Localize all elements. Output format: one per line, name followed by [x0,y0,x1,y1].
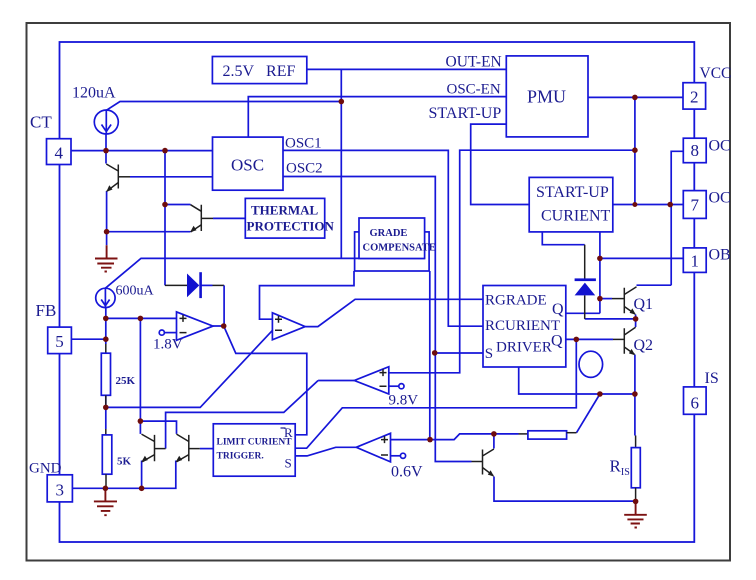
node 1.8V output [221,323,227,329]
resistor 25K [105,344,107,353]
transistor T5 [472,449,495,477]
wire: PMU output to VCC pin 2 [588,96,683,98]
wire: Q1 base [600,298,612,300]
node Q2 emitter sense [632,391,638,397]
wire: S input of driver flip-flop [435,352,483,354]
node GND-T3 [139,486,145,492]
svg-text:THERMAL: THERMAL [251,203,319,218]
wire: OB pin 1 to Q column [600,257,683,259]
ground G3 [624,501,647,527]
svg-text:8: 8 [690,141,699,160]
wire: T3 emitter down [141,461,143,489]
comparator U4 (0.6V, points left) [356,433,390,462]
svg-text:S: S [285,456,292,471]
svg-text:120uA: 120uA [72,85,116,102]
svg-text:OC: OC [709,138,731,155]
svg-text:PMU: PMU [527,87,566,107]
current source 120uA [94,110,118,134]
wire: Q column x=599.9 [599,232,601,313]
svg-text:1.8V: 1.8V [153,337,183,353]
diode D1 (to 1.8V output node) [187,274,199,298]
node startup-curient right [632,202,637,207]
svg-text:Q2: Q2 [634,337,654,354]
pin 5 box [48,327,72,354]
svg-text:PROTECTION: PROTECTION [247,219,335,234]
wire: mirror collector link [140,421,176,434]
wire: VCC column x=634.9 [634,97,636,204]
wire: divider tap to 2nd comparator minus [106,330,273,407]
svg-text:2: 2 [690,88,699,107]
wire: GND pin bus [72,461,175,489]
RS driver flip-flop block [483,286,566,368]
node PMU-VCC [632,95,638,101]
pin 1 box [683,248,706,273]
svg-text:RGRADE: RGRADE [485,293,547,309]
wire: 600uA bottom to FB node [105,308,107,344]
transistor Q1 [612,287,637,315]
ground G2 [94,488,117,515]
svg-text:0.6V: 0.6V [391,464,423,481]
wire: OSC2 descent to S input and T5 base [283,177,472,462]
wire: 0.6V comparator plus input line [391,434,519,440]
svg-text:START-UP: START-UP [429,105,502,122]
resistor 5K [105,429,107,435]
GRADE COMPENSATE block [359,218,425,259]
pin 6 box [684,387,707,414]
svg-text:IS: IS [705,370,719,387]
wire: T5 emitter to RIS ground node [494,477,636,502]
svg-text:7: 7 [690,196,699,215]
comparator U2 [272,313,305,340]
svg-text:OSC-EN: OSC-EN [447,82,501,98]
wire: T1 base to OSC [130,176,213,178]
wire: T4 base to limit trigger [200,448,214,450]
wire: T2 base to THERMAL PROTECTION [213,217,245,219]
svg-text:R: R [284,425,293,440]
wire: 1.8V comparator output to R riser [213,326,307,435]
comparator U1 (1.8V) [177,312,214,340]
pin 2 box [683,83,706,109]
svg-text:OC: OC [709,190,731,207]
wire: VCC node rail y=150 with descent to 9.8V comparator [389,150,635,373]
node divider tap [103,405,109,411]
transistor T2 [190,205,213,233]
wire: diode left stub from CT net [165,284,187,286]
diode D2 (bootstrap, cathode up) [584,245,586,280]
svg-text:GND: GND [29,461,62,477]
svg-text:5: 5 [55,332,64,351]
wire: T1 emitter down [106,191,108,232]
node CT-120uA [103,148,109,154]
node Qbar [574,337,580,343]
svg-text:R: R [610,457,622,476]
comparator U3 (9.8V, points left) [354,367,389,394]
wire: ground stem upper part [106,232,108,246]
svg-text:Q: Q [551,333,563,350]
svg-text:OSC2: OSC2 [286,161,323,177]
svg-text:OUT-EN: OUT-EN [446,54,502,71]
node pin7 column [667,202,673,208]
wire: driver box bottom to sense line [519,367,635,394]
node mirror collectors [138,418,144,424]
THERMAL PROTECTION block [245,198,324,238]
base resistor (horizontal) [519,433,528,435]
svg-text:GRADE: GRADE [370,228,408,239]
svg-text:COMPENSATE: COMPENSATE [363,243,436,254]
node T2 collector [162,202,168,208]
OSC block [213,137,284,190]
wire: T2 emitter to ground node [107,231,191,233]
node FB wire [103,336,109,342]
wire: descent x=140.4 to mirror collectors [139,318,141,421]
wire: grade compensate to 2nd comparator plus [260,271,355,319]
pin 3 box [47,475,72,502]
wire: Q output of driver flip-flop [566,312,600,314]
node 600uA-FB plus [103,316,109,322]
node GND-5K [103,486,109,492]
svg-text:IS: IS [621,467,630,478]
wire: 0.6V comparator to S of limit trigger [295,447,356,456]
wire: Q1 emitter / Q2 collector node vertical [635,315,637,328]
wire: FB node to 1.8V comparator plus [106,317,177,319]
node T5 collector branch [491,431,497,437]
wire: 9.8V comparator output to limit trigger R input [318,380,354,382]
svg-text:2.5V REF: 2.5V REF [223,63,296,80]
pin 7 box [683,191,706,219]
node Q1 emitter Q2 collector [633,316,639,322]
wire: START-UP from PMU to START-UP CURIENT box [471,124,530,204]
node U1 plus branch [138,316,144,322]
svg-text:3: 3 [56,481,65,500]
2.5V REF block [212,57,306,84]
transistor T3 [141,434,165,462]
svg-text:25K: 25K [116,375,136,387]
LIMIT CURIENT TRIGGER block [213,424,295,476]
wire: diode right side to 1.8V output node [202,284,213,286]
wire: 600uA top diagonal to REF rail [105,258,425,288]
svg-text:RCURIENT: RCURIENT [485,318,560,334]
node REF rail-120uA [339,99,345,105]
svg-text:Q: Q [552,301,564,318]
node RIS ground [633,499,639,505]
GRADE COMPENSATE shadow box [355,232,430,271]
wire: OC pin 8 to OC column [671,151,683,285]
wire: START-UP CURIENT bottom-left to bootstrap diode [542,232,584,245]
resistor RIS [635,436,637,448]
IC boundary (blue border with pins) [60,42,695,542]
svg-text:6: 6 [691,394,700,413]
wire: OSC-EN from OSC top to PMU [248,97,506,138]
wire: grade compensate tail vertical [429,271,431,440]
wire: CT pin to OSC [71,150,213,152]
PMU block [506,56,588,137]
START-UP CURIENT block [529,177,613,232]
ground G1 [95,245,118,271]
pin 4 box [47,139,72,165]
svg-text:START-UP: START-UP [536,184,609,201]
svg-text:Q1: Q1 [634,296,654,313]
svg-text:9.8V: 9.8V [389,393,419,409]
svg-text:4: 4 [54,144,63,163]
wire: Qbar descent to limit trigger output [295,339,576,448]
wire: divider mid segment [105,395,107,429]
wire: CT node vertical x=165 [164,151,166,286]
node sense diagonal [597,391,603,397]
svg-text:TRIGGER.: TRIGGER. [217,452,264,462]
svg-text:DRIVER: DRIVER [496,340,552,356]
pin 8 box [683,138,706,163]
transistor Q2 [613,327,636,355]
svg-text:600uA: 600uA [116,284,155,299]
wire: OSC1 to RCURIENT input [283,150,483,326]
wire: 2nd comparator output to RGRADE input [305,299,483,326]
node VCC rail y150 [632,147,638,153]
wire: Qbar output to Q2 base [566,338,613,340]
pad oval [579,351,603,377]
wire: REF rail descent [340,69,342,258]
wire: T5 collector drop [493,434,495,449]
svg-text:OSC: OSC [231,156,264,175]
wire: REF output / OUT-EN [307,68,507,70]
node T1/T2 emitters [104,229,110,235]
node S input branch [432,350,438,356]
svg-text:CT: CT [30,113,52,132]
svg-text:S: S [485,346,493,362]
svg-text:FB: FB [36,301,57,320]
wire: 120uA source to REF rail [106,102,341,111]
wire: T1 collector drop [105,151,107,164]
svg-text:1: 1 [690,252,699,271]
wire: FB pin to divider [71,338,105,340]
wire: T3 base riser to R node [166,381,319,449]
wire: START-UP CURIENT right to OC pin 7 [613,204,684,206]
svg-text:OB: OB [709,247,731,264]
wire: Q1 collector horizontal [637,284,672,286]
svg-text:LIMIT CURIENT: LIMIT CURIENT [217,438,293,448]
node Q1 base [597,296,603,302]
wire: 120uA bottom to CT wire [105,134,107,151]
svg-text:VCC: VCC [700,65,732,82]
wire: T3 collector drop [139,421,141,434]
wire: diode anode to Q1 emitter node [585,318,636,320]
svg-text:OSC1: OSC1 [285,136,322,152]
transistor T4 [176,434,200,462]
node OB wire [597,256,603,262]
svg-text:5K: 5K [117,456,132,468]
node CT-165 [162,148,168,154]
current source 600uA [96,288,115,307]
svg-text:CURIENT: CURIENT [541,208,611,225]
wire: T2 collector to x=165 [165,204,191,206]
wire: sense diagonal to base resistor [577,394,600,433]
wire: Q2 emitter descent to RIS [634,355,636,436]
transistor T1 [106,164,130,192]
node 0.6V plus branch [427,437,433,443]
